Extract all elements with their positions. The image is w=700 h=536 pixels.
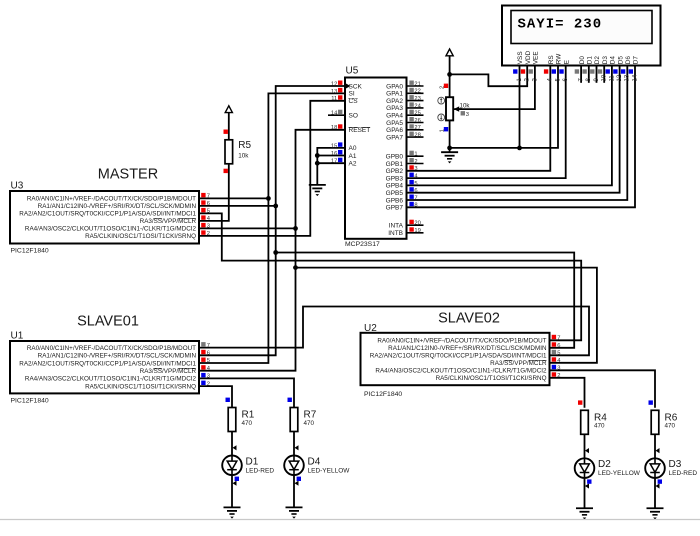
LCD display LCD1 body	[502, 6, 661, 66]
wire U2 RA5 to R4	[550, 378, 585, 408]
bottom frame line	[0, 519, 700, 521]
svg-text:SAYI= 230: SAYI= 230	[518, 16, 603, 32]
svg-text:3: 3	[466, 112, 469, 118]
svg-text:D2: D2	[598, 459, 611, 470]
svg-text:LED-YELLOW: LED-YELLOW	[598, 470, 641, 477]
svg-text:2: 2	[207, 231, 210, 237]
svg-text:RA0/AN0/C1IN+/VREF-/DACOUT/TX/: RA0/AN0/C1IN+/VREF-/DACOUT/TX/CK/SDO/P1B…	[377, 338, 546, 345]
wire SCK bus branch to U2 RA1	[276, 253, 575, 348]
svg-text:VDD: VDD	[525, 50, 532, 64]
R7 top state square	[288, 398, 292, 402]
svg-text:LED-RED: LED-RED	[246, 467, 275, 474]
svg-text:11: 11	[609, 75, 615, 82]
svg-text:19: 19	[414, 228, 420, 234]
svg-text:14: 14	[331, 111, 338, 117]
wire R7 to D4	[293, 432, 295, 456]
LCD text SAYI= 230	[518, 16, 603, 32]
wire D2 cathode to ground	[584, 478, 586, 508]
wire LCD E (pin6) to U5 GPB3	[407, 66, 566, 179]
potentiometer pin1 circle mark	[438, 97, 445, 104]
svg-text:SLAVE02: SLAVE02	[438, 310, 500, 326]
svg-text:RA4/AN3/OSC2/CLKOUT/T1OSO/C1IN: RA4/AN3/OSC2/CLKOUT/T1OSO/C1IN1-/CLKR/T1…	[375, 368, 547, 375]
R5 state squares	[224, 130, 228, 174]
svg-text:GPA7: GPA7	[386, 134, 403, 141]
LCD pin state squares	[513, 69, 633, 73]
resistor R5 label	[238, 140, 251, 159]
svg-text:17: 17	[331, 159, 337, 165]
svg-text:D4: D4	[610, 56, 617, 65]
wire LCD VDD (pin2) jog to power junction	[450, 66, 528, 87]
pot top state square and pin 2 label	[439, 84, 448, 89]
wire U5 A0 A1 A2 to ground	[317, 148, 345, 185]
potentiometer pin2 circle mark	[438, 114, 445, 121]
D1 cathode pin mark	[233, 481, 237, 486]
svg-text:PIC12F1840: PIC12F1840	[11, 398, 49, 405]
svg-text:13: 13	[331, 89, 337, 95]
svg-text:U2: U2	[364, 323, 377, 334]
svg-text:GPA1: GPA1	[386, 91, 403, 98]
wire U3 RA2 to slave02 RA0 (return data line)	[199, 213, 581, 340]
svg-text:MCP23S17: MCP23S17	[345, 241, 380, 248]
svg-text:470: 470	[304, 420, 315, 427]
resistor R1 labels	[242, 410, 255, 427]
svg-text:1: 1	[439, 129, 445, 132]
svg-text:RA2/AN2/C1OUT/SRQ/T0CKI/CCP1/P: RA2/AN2/C1OUT/SRQ/T0CKI/CCP1/P1A/SDA/SDI…	[19, 211, 196, 218]
svg-text:D4: D4	[308, 456, 321, 467]
D2 cathode pin mark	[585, 483, 589, 488]
wire U2 RA4 to R6	[550, 370, 656, 408]
U1 pin names	[19, 345, 196, 391]
svg-text:INTB: INTB	[388, 230, 403, 237]
junction A2 bus	[315, 161, 320, 166]
wire power to potentiometer top	[449, 74, 451, 97]
svg-text:INTA: INTA	[389, 223, 404, 230]
wire LCD RS (pin4) to U5 GPB2	[407, 66, 551, 171]
svg-text:6: 6	[207, 201, 210, 207]
svg-text:PIC12F1840: PIC12F1840	[364, 391, 402, 398]
svg-text:LED-YELLOW: LED-YELLOW	[308, 467, 351, 474]
U2 pin numbers	[557, 336, 561, 380]
resistor R6 labels	[665, 412, 678, 429]
U3 pin state squares	[201, 193, 205, 235]
svg-text:U1: U1	[11, 331, 24, 342]
LED D1 symbol	[222, 456, 242, 476]
U5 GPB0 GPB1 stubs (unconnected)	[407, 156, 424, 163]
svg-text:D6: D6	[625, 56, 632, 65]
LED D3 symbol	[645, 458, 665, 478]
wire U1 RA0 to U2 RA2 (daisy chain)	[199, 307, 589, 356]
svg-text:12: 12	[331, 81, 337, 87]
U5 left pin state squares	[338, 81, 342, 163]
svg-text:A2: A2	[349, 161, 357, 168]
wire R4 to D2	[584, 434, 586, 458]
svg-text:26: 26	[414, 118, 420, 124]
D1 bottom state square	[235, 477, 239, 481]
svg-text:RA1/AN1/C12IN0-/VREF+/SRI/RX/D: RA1/AN1/C12IN0-/VREF+/SRI/RX/DT/SCL/SCK/…	[38, 353, 197, 360]
svg-text:7: 7	[207, 194, 210, 200]
junction RESET branch	[293, 265, 298, 270]
svg-text:5: 5	[557, 351, 560, 357]
ground symbol below D3	[647, 508, 664, 519]
svg-text:SI: SI	[349, 91, 355, 98]
wire LCD VSS (pin1) down to ground rail	[519, 66, 521, 148]
svg-text:20: 20	[414, 221, 420, 227]
wire U1 RA4 to R7	[199, 378, 294, 407]
wire LCD D7 (pin14) to U5 GPB7	[407, 66, 636, 208]
D1 anode pin mark	[233, 445, 237, 450]
resistor R7 body	[290, 408, 298, 432]
svg-text:470: 470	[594, 423, 605, 430]
svg-text:10k: 10k	[238, 152, 249, 159]
svg-text:RESET: RESET	[349, 127, 371, 134]
op IC U5 MCP23S17 body	[345, 78, 407, 239]
junction SCK branch	[273, 250, 278, 255]
svg-text:16: 16	[331, 151, 337, 157]
svg-text:2: 2	[557, 373, 560, 379]
svg-text:R1: R1	[242, 410, 255, 421]
resistor R6 body	[651, 410, 659, 434]
svg-text:R7: R7	[304, 410, 317, 421]
svg-text:470: 470	[242, 420, 253, 427]
svg-text:RS: RS	[548, 55, 555, 64]
svg-text:GPB4: GPB4	[386, 183, 404, 190]
svg-text:SO: SO	[349, 113, 358, 120]
junction pot bottom / ground rail	[447, 146, 452, 151]
microcontroller U2 PIC12F1840 body	[361, 333, 550, 385]
svg-text:RA5/CLKIN/OSC1/T1OSI/T1CKI/SRN: RA5/CLKIN/OSC1/T1OSI/T1CKI/SRNQ	[436, 375, 547, 382]
svg-text:12: 12	[617, 74, 623, 81]
potentiometer RV1 10k body	[446, 97, 453, 120]
D2 bottom state square	[587, 479, 591, 483]
svg-text:D3: D3	[669, 459, 682, 470]
svg-text:VSS: VSS	[517, 51, 524, 64]
svg-text:13: 13	[625, 74, 631, 81]
wire U3 RA0 to SI bus	[199, 197, 268, 199]
U2 pin names	[370, 338, 547, 383]
svg-text:R6: R6	[665, 412, 678, 423]
resistor R7 labels	[304, 410, 317, 427]
svg-text:RA3/SS/VPP/MCLR: RA3/SS/VPP/MCLR	[490, 360, 547, 367]
svg-text:GPB6: GPB6	[386, 197, 404, 204]
svg-text:2: 2	[414, 159, 417, 165]
D4 cathode pin mark	[295, 481, 299, 486]
svg-text:RA3/SS/VPP/MCLR: RA3/SS/VPP/MCLR	[140, 368, 197, 375]
svg-text:5: 5	[207, 209, 210, 215]
R6 top state square	[649, 400, 653, 404]
svg-text:D1: D1	[587, 56, 594, 65]
svg-text:RA5/CLKIN/OSC1/T1OSI/T1CKI/SRN: RA5/CLKIN/OSC1/T1OSI/T1CKI/SRNQ	[85, 383, 196, 390]
LED D2 symbol	[575, 458, 595, 478]
svg-text:SCK: SCK	[349, 83, 363, 90]
D3 anode pin mark	[656, 448, 660, 453]
svg-text:GPB1: GPB1	[386, 161, 404, 168]
U2 pin state squares	[552, 335, 556, 377]
power symbol above R5	[225, 106, 232, 140]
svg-text:3: 3	[557, 366, 560, 372]
junction RA0/SI	[266, 196, 271, 201]
svg-text:RA5/CLKIN/OSC1/T1OSI/T1CKI/SRN: RA5/CLKIN/OSC1/T1OSI/T1CKI/SRNQ	[85, 233, 196, 240]
svg-text:GPB5: GPB5	[386, 190, 404, 197]
svg-text:GPA5: GPA5	[386, 120, 403, 127]
U3 pin numbers	[207, 194, 211, 238]
U5 right pin names	[386, 83, 404, 237]
svg-text:GPB3: GPB3	[386, 175, 404, 182]
svg-text:R5: R5	[238, 140, 251, 151]
svg-text:7: 7	[557, 336, 560, 342]
wire LCD RW (pin5) to ground rail	[450, 66, 558, 148]
wire U3 RA4 to RESET bus	[199, 227, 296, 229]
wire RESET bus branch to U2 RA3	[296, 268, 597, 363]
D4 labels	[308, 456, 351, 474]
wire D3 cathode to ground	[654, 478, 656, 508]
resistor R4 body	[581, 410, 589, 434]
svg-text:D5: D5	[617, 56, 624, 65]
svg-text:27: 27	[414, 125, 420, 131]
microcontroller U1 PIC12F1840 body	[10, 341, 199, 393]
svg-text:CS: CS	[349, 98, 359, 105]
svg-text:RA4/AN3/OSC2/CLKOUT/T1OSO/C1IN: RA4/AN3/OSC2/CLKOUT/T1OSO/C1IN1-/CLKR/T1…	[25, 226, 197, 233]
svg-text:A1: A1	[349, 153, 357, 160]
svg-text:R4: R4	[594, 412, 607, 423]
svg-text:10k: 10k	[460, 102, 471, 109]
svg-text:10: 10	[602, 74, 608, 81]
svg-text:RA2/AN2/C1OUT/SRQ/T0CKI/CCP1/P: RA2/AN2/C1OUT/SRQ/T0CKI/CCP1/P1A/SDA/SDI…	[370, 353, 547, 360]
svg-text:A0: A0	[349, 145, 357, 152]
D4 bottom state square	[297, 477, 301, 481]
svg-text:24: 24	[414, 103, 421, 109]
wire R5 bottom to U3 RA3/MCLR	[199, 164, 229, 221]
svg-text:8: 8	[414, 203, 417, 209]
svg-text:6: 6	[414, 188, 417, 194]
junction power/VDD	[447, 72, 452, 77]
svg-text:2: 2	[207, 381, 210, 387]
svg-text:GPA6: GPA6	[386, 127, 403, 134]
D2 anode pin mark	[585, 448, 589, 453]
svg-text:18: 18	[331, 125, 337, 131]
wire U5 CS down to U3 RA5	[199, 101, 345, 236]
svg-text:15: 15	[331, 143, 337, 149]
svg-text:D0: D0	[579, 56, 586, 65]
U5 left pin names	[349, 83, 371, 167]
R4 top state square	[578, 400, 582, 404]
svg-text:2: 2	[439, 86, 445, 89]
LCD pin numbers 1-14	[517, 74, 639, 81]
D3 cathode pin mark	[656, 483, 660, 488]
junction RA1/SCK	[273, 204, 278, 209]
svg-text:PIC12F1840: PIC12F1840	[11, 248, 49, 255]
junction VSS/ground rail	[517, 146, 522, 151]
U5 right pin numbers	[414, 81, 421, 234]
wire R1 to D1	[231, 432, 233, 456]
power symbol above potentiometer	[446, 49, 453, 74]
U5 GPA0-GPA7 stubs (unconnected)	[407, 86, 424, 137]
microcontroller U3 PIC12F1840 body	[10, 191, 199, 244]
D2 labels	[598, 459, 641, 477]
svg-text:GPA3: GPA3	[386, 105, 403, 112]
U1 pin state squares	[201, 342, 205, 385]
U1 pin numbers	[207, 343, 211, 388]
wire U5 RESET bus down to U1 RA3	[199, 130, 345, 371]
svg-text:3: 3	[207, 374, 210, 380]
ground symbol below U5 A pins	[309, 185, 326, 196]
svg-text:28: 28	[414, 133, 420, 139]
svg-text:RA2/AN2/C1OUT/SRQ/T0CKI/CCP1/P: RA2/AN2/C1OUT/SRQ/T0CKI/CCP1/P1A/SDA/SDI…	[19, 360, 196, 367]
svg-text:MASTER: MASTER	[98, 167, 158, 183]
U5 INTA INTB stubs	[407, 225, 424, 233]
ground symbol below D1	[224, 507, 241, 518]
wire LCD D5 (pin12) to U5 GPB5	[407, 66, 620, 193]
svg-text:E: E	[563, 60, 570, 64]
svg-text:VEE: VEE	[533, 51, 540, 64]
svg-text:GPB7: GPB7	[386, 205, 404, 212]
svg-text:RA3/SS/VPP/MCLR: RA3/SS/VPP/MCLR	[140, 218, 197, 225]
wire potentiometer bottom to ground	[449, 120, 451, 152]
svg-text:GPA4: GPA4	[386, 113, 403, 120]
resistor R4 labels	[594, 412, 607, 429]
svg-text:3: 3	[207, 224, 210, 230]
svg-text:D2: D2	[594, 56, 601, 65]
ground symbol below potentiometer	[441, 152, 458, 163]
svg-text:7: 7	[207, 343, 210, 349]
svg-text:D1: D1	[246, 456, 259, 467]
wire U5 SCK to SCK bus	[199, 86, 345, 355]
wire LCD VEE (pin3) to potentiometer wiper	[454, 66, 535, 110]
wire U1 RA5 to R1	[199, 386, 232, 408]
svg-text:RA4/AN3/OSC2/CLKOUT/T1OSO/C1IN: RA4/AN3/OSC2/CLKOUT/T1OSO/C1IN1-/CLKR/T1…	[25, 376, 197, 383]
LCD pin name labels VSS VDD VEE RS RW E D0-D7	[517, 50, 640, 64]
wire U5 SI to SI bus	[199, 93, 345, 363]
svg-text:7: 7	[414, 195, 417, 201]
wire U3 RA1 to SCK bus	[199, 205, 276, 207]
wire LCD D6 (pin13) to U5 GPB6	[407, 66, 628, 201]
svg-text:RA0/AN0/C1IN+/VREF-/DACOUT/TX/: RA0/AN0/C1IN+/VREF-/DACOUT/TX/CK/SDO/P1B…	[27, 196, 196, 203]
svg-text:5: 5	[207, 358, 210, 364]
resistor R1 body	[228, 408, 236, 432]
svg-text:3: 3	[414, 166, 417, 172]
D1 labels	[246, 456, 275, 474]
svg-text:25: 25	[414, 111, 420, 117]
D3 labels	[669, 459, 698, 477]
potentiometer wiper arrow	[454, 106, 462, 111]
potentiometer wiper pin3 label	[461, 111, 469, 118]
svg-text:GPA0: GPA0	[386, 83, 403, 90]
U3 pin names	[19, 196, 196, 241]
U5 left pin numbers	[331, 81, 338, 164]
svg-text:RA0/AN0/C1IN+/VREF-/DACOUT/TX/: RA0/AN0/C1IN+/VREF-/DACOUT/TX/CK/SDO/P1B…	[27, 345, 196, 352]
resistor R5 body	[225, 140, 233, 164]
junction RA4/RESET	[293, 226, 298, 231]
R1 top state square	[226, 398, 230, 402]
svg-text:1: 1	[414, 152, 417, 158]
svg-text:6: 6	[557, 343, 560, 349]
wire R6 to D3	[654, 434, 656, 458]
wire D1 cathode to ground	[231, 475, 233, 507]
svg-text:22: 22	[414, 89, 420, 95]
svg-text:RA1/AN1/C12IN0-/VREF+/SRI/RX/D: RA1/AN1/C12IN0-/VREF+/SRI/RX/DT/SCL/SCK/…	[38, 203, 197, 210]
svg-text:21: 21	[414, 81, 420, 87]
D3 bottom state square	[658, 479, 662, 483]
svg-text:23: 23	[414, 96, 420, 102]
svg-text:GPB0: GPB0	[386, 154, 404, 161]
svg-text:14: 14	[632, 74, 638, 81]
svg-text:GPB2: GPB2	[386, 168, 404, 175]
svg-text:RW: RW	[556, 53, 563, 64]
svg-text:D3: D3	[602, 56, 609, 65]
svg-text:6: 6	[207, 351, 210, 357]
LCD pin stubs D0-D3 (unconnected)	[581, 66, 604, 83]
D4 anode pin mark	[295, 445, 299, 450]
svg-text:LED-RED: LED-RED	[669, 470, 698, 477]
LED D4 symbol	[284, 456, 304, 476]
U5 SCK clock input arrow	[346, 83, 351, 89]
pot bottom state square and pin 1 label	[439, 127, 448, 132]
svg-text:GPA2: GPA2	[386, 98, 403, 105]
junction A1 bus	[315, 153, 320, 158]
wire LCD D4 (pin11) to U5 GPB4	[407, 66, 612, 186]
U5 right pin state squares	[409, 81, 413, 232]
svg-text:470: 470	[665, 423, 676, 430]
wire D4 cathode to ground	[293, 475, 295, 507]
svg-text:11: 11	[331, 96, 337, 102]
U5 SO stub (unconnected)	[328, 114, 345, 116]
svg-text:D7: D7	[633, 56, 640, 65]
ground symbol below D2	[576, 508, 593, 519]
ground symbol below D4	[286, 507, 303, 518]
svg-text:SLAVE01: SLAVE01	[77, 313, 139, 329]
svg-text:5: 5	[414, 181, 417, 187]
svg-text:U5: U5	[346, 66, 359, 77]
svg-text:U3: U3	[11, 181, 24, 192]
svg-text:RA1/AN1/C12IN0-/VREF+/SRI/RX/D: RA1/AN1/C12IN0-/VREF+/SRI/RX/DT/SCL/SCK/…	[388, 345, 547, 352]
